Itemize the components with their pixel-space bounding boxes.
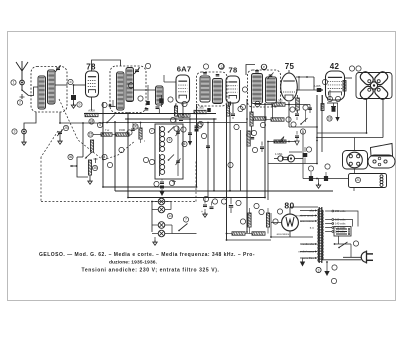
label pair bl	[174, 126, 186, 132]
rail x281b	[280, 164, 282, 171]
label g3b	[316, 267, 321, 272]
svg-text:30: 30	[134, 125, 138, 129]
transformer secondary winding	[322, 210, 323, 260]
label i1	[290, 107, 295, 112]
wire V3 cathode	[232, 103, 234, 113]
V5 inner vert	[330, 77, 332, 97]
label 42a	[327, 96, 332, 101]
transformer left stubs	[300, 210, 317, 260]
coil IFT1a	[200, 76, 210, 102]
svg-text:6: 6	[184, 142, 186, 146]
node 15	[88, 132, 101, 137]
dashed bottom bus	[41, 201, 196, 203]
transformer primary winding	[318, 209, 319, 262]
box out	[267, 164, 269, 201]
label osc2	[169, 180, 174, 185]
resistor R6 vert	[139, 123, 145, 144]
plug P2	[361, 251, 373, 264]
svg-text:1: 1	[13, 81, 15, 85]
resistor R2 vert	[90, 140, 93, 152]
label 4	[97, 122, 102, 127]
mains wire pair	[322, 244, 361, 260]
resistor A305b	[255, 99, 310, 107]
svg-text:GELOSO. — Mod. G. 62. – Media: GELOSO. — Mod. G. 62. – Media e corte. –…	[39, 252, 255, 258]
coil L2b	[126, 68, 134, 102]
tube V3 78	[226, 76, 240, 103]
pot arm R2	[85, 152, 92, 159]
wire V4 down	[288, 102, 290, 104]
label 28	[240, 219, 245, 224]
resistor R17 dark	[321, 95, 324, 111]
coil box L2 dashed	[110, 66, 146, 113]
coil IFT2a	[252, 74, 263, 104]
driver wire y87	[334, 87, 356, 94]
label b	[77, 102, 82, 107]
svg-text:5 V: 5 V	[310, 226, 314, 230]
switch mid	[300, 118, 307, 125]
svg-text:I: I	[144, 139, 145, 143]
junction dots	[102, 89, 323, 241]
wire L1 bottom tap2	[59, 112, 61, 124]
resistor R8 h	[175, 104, 176, 107]
lamp P1	[158, 198, 165, 205]
lamp P3	[158, 222, 165, 229]
wire V2 grid left	[164, 75, 176, 82]
label 6c	[238, 106, 243, 111]
switch mid-left	[106, 115, 115, 124]
label 7c	[198, 121, 203, 126]
rail x115	[114, 121, 116, 191]
label v6a	[259, 209, 264, 214]
node label 2	[128, 83, 133, 88]
rail x303	[302, 132, 304, 179]
drop x310	[308, 105, 312, 114]
wire to coil L1	[29, 87, 39, 96]
node label 5	[218, 63, 223, 68]
label A305a	[194, 106, 211, 114]
svg-text:25: 25	[64, 126, 68, 130]
label 6b	[182, 141, 187, 146]
wire V2 cathode	[182, 103, 184, 118]
cap x190	[188, 133, 192, 146]
coil IFT1b	[213, 79, 223, 104]
node ring antenna	[20, 80, 25, 85]
wire bias y208	[231, 207, 268, 209]
switch S2	[172, 224, 188, 232]
speaker horn	[371, 144, 393, 157]
wire driver down R	[316, 99, 383, 139]
transformer T1 core	[319, 207, 322, 263]
cap x196	[195, 126, 199, 132]
transformer left labels	[296, 209, 315, 261]
svg-text:4: 4	[104, 155, 106, 159]
label V4 75	[285, 62, 295, 71]
rail x317	[316, 95, 318, 164]
svg-text:7 w: 7 w	[105, 128, 110, 132]
cap C9 blk	[324, 172, 328, 181]
node label 7	[119, 147, 124, 152]
osc box	[155, 124, 183, 179]
wire y77	[296, 76, 314, 90]
heater bus y237	[271, 233, 313, 237]
outbox drop	[337, 188, 354, 197]
svg-text:2: 2	[19, 101, 21, 105]
rail x128	[127, 112, 129, 198]
ground G11	[324, 261, 329, 276]
wire sock down	[354, 138, 356, 174]
svg-text:1 MΩ.: 1 MΩ.	[275, 152, 283, 156]
ground G4	[88, 179, 92, 184]
speaker driver frame	[356, 73, 392, 99]
osc coil L3a	[160, 126, 165, 152]
cap C7 42 blk	[331, 103, 336, 112]
node label 8	[143, 157, 148, 162]
cap h2	[295, 131, 299, 145]
label 32	[273, 219, 278, 224]
vres x247	[250, 99, 253, 135]
wire y163	[268, 163, 317, 165]
coil L2a	[117, 72, 125, 110]
dashed gang diag1	[59, 99, 103, 160]
label 31	[127, 130, 132, 135]
node label 11	[252, 147, 257, 152]
selector drop	[334, 236, 351, 245]
svg-text:80: 80	[284, 201, 294, 211]
cap small mid	[260, 142, 264, 153]
node label 10	[228, 162, 233, 167]
wire L1 out	[55, 84, 74, 86]
ground G6	[335, 103, 339, 122]
label 33c	[242, 87, 247, 92]
node label 9	[107, 162, 112, 167]
speaker driver petals	[359, 70, 390, 101]
label c	[219, 64, 225, 70]
dashed gang diag2	[41, 131, 58, 157]
tube V1 78	[86, 71, 99, 97]
selector wires	[334, 211, 358, 227]
label g11a	[332, 265, 337, 270]
caption line1	[39, 252, 255, 258]
label x230	[234, 124, 239, 129]
label f2	[149, 128, 154, 133]
rail x214	[213, 118, 215, 191]
osc trimmer b	[176, 159, 181, 166]
label 1Mohm	[275, 152, 283, 156]
svg-text:9: 9	[169, 138, 171, 142]
transformer taps	[325, 209, 346, 234]
label 2	[17, 100, 22, 105]
cap C2 blk	[71, 85, 76, 103]
caption line2	[109, 259, 158, 265]
resistor R14	[266, 208, 269, 234]
switch S3	[338, 242, 347, 248]
svg-text:A.305: A.305	[196, 106, 204, 110]
tube V6 80	[282, 214, 299, 231]
lamp P4	[158, 230, 165, 237]
osc caps below	[160, 179, 165, 196]
dashed left vert	[40, 157, 42, 201]
cap left V3	[226, 102, 231, 106]
osc trimmer a	[176, 126, 181, 176]
label h2	[300, 129, 305, 134]
label 1	[11, 80, 16, 85]
svg-text:7: 7	[185, 218, 187, 222]
wire pot frame	[77, 157, 88, 177]
tube V5 42	[326, 71, 345, 100]
label f4	[353, 241, 358, 246]
IFT1 box dashed	[197, 72, 228, 106]
cap x148 blk	[145, 85, 150, 110]
ground G1	[71, 103, 75, 108]
IFT2 box dashed	[248, 70, 281, 107]
node label 3	[170, 117, 175, 122]
driver labels	[349, 66, 361, 71]
label h4	[306, 147, 311, 152]
label 80	[284, 201, 294, 211]
osc stub	[172, 180, 176, 185]
arrow stub	[70, 165, 77, 167]
label k1	[168, 97, 173, 102]
label 17	[335, 96, 340, 101]
coil L1a	[38, 76, 46, 109]
label V2 6A7	[177, 65, 192, 74]
lamp wires a	[152, 202, 171, 210]
trimmer IFT2a	[255, 71, 259, 72]
rail x299	[298, 77, 300, 90]
bus y152	[289, 151, 302, 153]
wire driver down L	[317, 99, 367, 134]
elcap pair	[201, 198, 214, 215]
svg-text:6A7: 6A7	[177, 65, 192, 74]
svg-text:42: 42	[330, 62, 340, 71]
wire V5 cath y103	[327, 102, 338, 104]
bus y197	[128, 197, 265, 199]
trimmer C3	[57, 129, 63, 139]
node d	[68, 79, 73, 84]
rail x230	[229, 112, 231, 192]
svg-text:4: 4	[99, 123, 101, 127]
svg-text:A308: A308	[88, 109, 95, 113]
label 8b	[138, 96, 143, 101]
switch S1 antenna	[20, 89, 29, 99]
svg-text:1500: 1500	[119, 128, 126, 132]
svg-text:24: 24	[90, 120, 94, 124]
cap stub left	[131, 123, 135, 131]
node label 0	[145, 63, 150, 68]
trimmer IFT1b	[216, 75, 220, 76]
svg-text:Tensioni anodiche: 230 V; entr: Tensioni anodiche: 230 V; entrata filtro…	[82, 268, 220, 274]
label x247	[240, 104, 245, 109]
label osc1	[154, 181, 159, 186]
label 18	[327, 116, 332, 121]
resistor R13	[248, 208, 251, 234]
svg-text:36: 36	[69, 155, 73, 159]
V6 wire bottom	[289, 231, 291, 237]
coil IFT2b	[266, 77, 277, 103]
stub tiny T	[94, 158, 98, 163]
rail x322	[321, 95, 323, 152]
hres R15	[226, 232, 245, 235]
svg-text:accensione: accensione	[277, 233, 290, 236]
label 21	[355, 177, 360, 182]
bus y191	[115, 190, 333, 192]
label i3	[303, 105, 308, 110]
wire antenna down	[21, 85, 23, 90]
svg-text:18: 18	[328, 117, 332, 121]
coil L1b	[48, 70, 56, 104]
dashed riser x196	[195, 160, 197, 202]
wire choke row	[303, 178, 349, 180]
pot R3 vert	[88, 160, 91, 175]
blk blob 6A7	[159, 95, 164, 107]
label c9	[325, 164, 330, 169]
label x252	[255, 101, 260, 106]
svg-text:78: 78	[228, 66, 237, 75]
rail x330	[329, 90, 331, 100]
svg-text:A.305: A.305	[314, 84, 321, 88]
label V1 78	[86, 63, 96, 72]
socket U2 box	[343, 151, 368, 170]
svg-text:duzione: 1935-1936.: duzione: 1935-1936.	[109, 259, 158, 265]
cap C10	[229, 198, 233, 214]
osc rail xr	[170, 126, 172, 150]
driver hum coil	[343, 78, 346, 94]
label x205	[201, 133, 206, 138]
label 30	[133, 124, 138, 129]
label 26	[221, 199, 226, 204]
svg-text:d: d	[70, 80, 72, 84]
trimmer IFT2b	[268, 73, 274, 80]
label 14	[167, 213, 172, 218]
rail x226	[226, 104, 228, 240]
bus y119	[125, 118, 217, 120]
resistor R7 6A7	[174, 103, 177, 123]
wire R3 down	[89, 175, 91, 179]
lamp P2	[158, 206, 165, 213]
label f3	[149, 159, 154, 164]
stub T below L2	[111, 100, 116, 107]
lamp wires b	[152, 225, 172, 234]
ground G9	[203, 209, 207, 217]
trimmer IFT1a	[203, 73, 207, 74]
label 34	[212, 199, 217, 204]
coil L2c	[134, 86, 163, 105]
osc switch b	[168, 155, 174, 161]
speaker driver holes	[368, 80, 380, 92]
tube V4 75	[281, 70, 298, 101]
label V5 42	[330, 62, 340, 71]
node label 4	[197, 123, 202, 128]
svg-text:e: e	[263, 65, 265, 69]
osc switch a	[168, 127, 174, 133]
label 3	[12, 129, 17, 134]
wire bias bot	[227, 236, 272, 240]
bus y127	[289, 105, 318, 128]
trimmer C4	[134, 67, 140, 74]
rail x205	[207, 122, 209, 198]
V6 wire left	[271, 213, 282, 237]
ground G8	[152, 232, 157, 245]
label g11b	[331, 278, 336, 283]
bus y122m	[103, 122, 247, 124]
driver wire left	[347, 78, 352, 104]
label 4b	[102, 154, 107, 159]
output box	[349, 174, 387, 188]
cap x205	[206, 146, 210, 148]
svg-text:A.305: A.305	[276, 99, 283, 103]
osc res h	[178, 101, 190, 117]
resistor R1 A308	[85, 109, 98, 125]
field coil oval	[368, 155, 395, 168]
selector block	[334, 227, 351, 237]
bus y187	[103, 186, 197, 188]
svg-text:b: b	[79, 103, 81, 107]
label 29	[254, 203, 259, 208]
resistor R10 75	[296, 95, 300, 113]
wire V3 plate up	[246, 65, 255, 76]
label 25	[63, 125, 68, 130]
V6 filaments	[286, 217, 294, 227]
wire lamp sw	[188, 223, 197, 225]
rail x240	[240, 130, 242, 191]
label 36	[68, 154, 73, 159]
rail x103	[102, 102, 104, 187]
border frame	[8, 32, 396, 301]
label 33	[203, 196, 208, 201]
ground G7	[316, 179, 320, 189]
svg-text:f: f	[152, 129, 153, 133]
resistor R5	[112, 128, 129, 136]
antenna A1	[16, 61, 28, 80]
cap C8 blk	[309, 172, 313, 181]
vert x268	[267, 142, 269, 164]
hres x252	[253, 117, 266, 128]
wire V1 cathode	[91, 97, 93, 111]
coil box L1 dashed	[31, 67, 67, 113]
wire d to V1	[74, 84, 85, 86]
svg-text:3: 3	[14, 130, 16, 134]
dashed diag mid	[103, 141, 135, 160]
rail x196	[196, 104, 198, 187]
label 19	[322, 79, 327, 84]
V6 wire top	[290, 207, 318, 214]
svg-text:+: +	[201, 210, 203, 214]
bus y90	[296, 84, 322, 92]
label 9	[167, 137, 172, 142]
svg-text:140 volts: 140 volts	[335, 222, 346, 226]
ground G2	[22, 134, 26, 145]
cap C6	[231, 114, 235, 119]
cap i2	[295, 110, 299, 120]
label 7b	[183, 217, 188, 222]
vres dark x248	[247, 130, 257, 146]
vert x272	[272, 104, 274, 119]
svg-text:35: 35	[93, 166, 97, 170]
bus y113	[84, 113, 216, 115]
trimmer C1	[55, 65, 61, 72]
bus y123	[60, 122, 103, 124]
label c8	[308, 166, 313, 171]
label 27	[236, 200, 241, 205]
svg-text:21: 21	[356, 178, 360, 182]
label V3 78	[228, 66, 237, 75]
wire V5 plate	[345, 77, 353, 79]
rail x265	[264, 104, 266, 198]
dogbone R12	[274, 155, 303, 162]
wire y157	[77, 156, 83, 158]
label v6b	[277, 209, 282, 214]
wire V1 plate top	[92, 60, 121, 71]
